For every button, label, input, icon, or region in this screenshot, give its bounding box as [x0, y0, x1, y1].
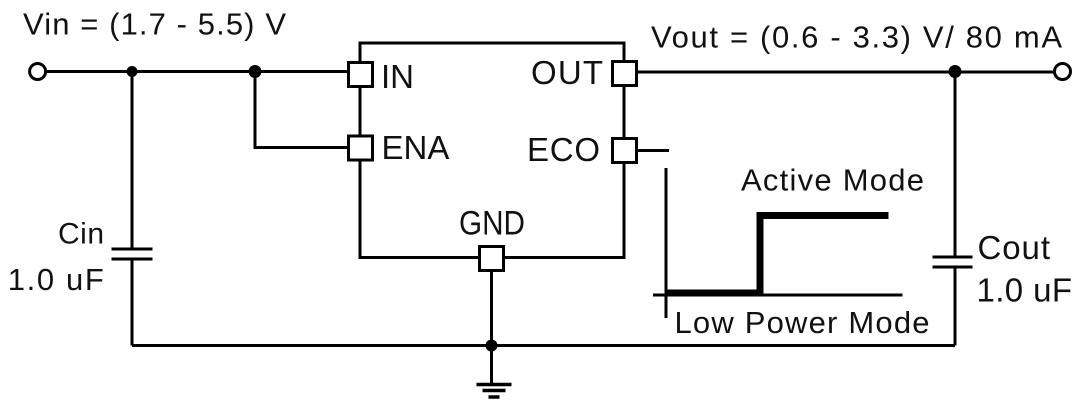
svg-text:GND: GND — [459, 205, 525, 243]
svg-text:Cin: Cin — [58, 218, 104, 251]
svg-text:Low Power Mode: Low Power Mode — [675, 305, 930, 340]
svg-text:ENA: ENA — [382, 129, 450, 166]
svg-text:OUT: OUT — [531, 54, 603, 91]
svg-text:Active Mode: Active Mode — [741, 163, 924, 198]
svg-text:Vout = (0.6 - 3.3) V/ 80 mA: Vout = (0.6 - 3.3) V/ 80 mA — [651, 20, 1062, 55]
svg-text:IN: IN — [381, 58, 414, 95]
svg-text:1.0 uF: 1.0 uF — [8, 262, 104, 297]
svg-text:ECO: ECO — [527, 131, 600, 168]
svg-text:Vin = (1.7 - 5.5) V: Vin = (1.7 - 5.5) V — [23, 7, 286, 42]
svg-text:Cout: Cout — [978, 229, 1051, 266]
svg-text:1.0 uF: 1.0 uF — [977, 272, 1073, 309]
